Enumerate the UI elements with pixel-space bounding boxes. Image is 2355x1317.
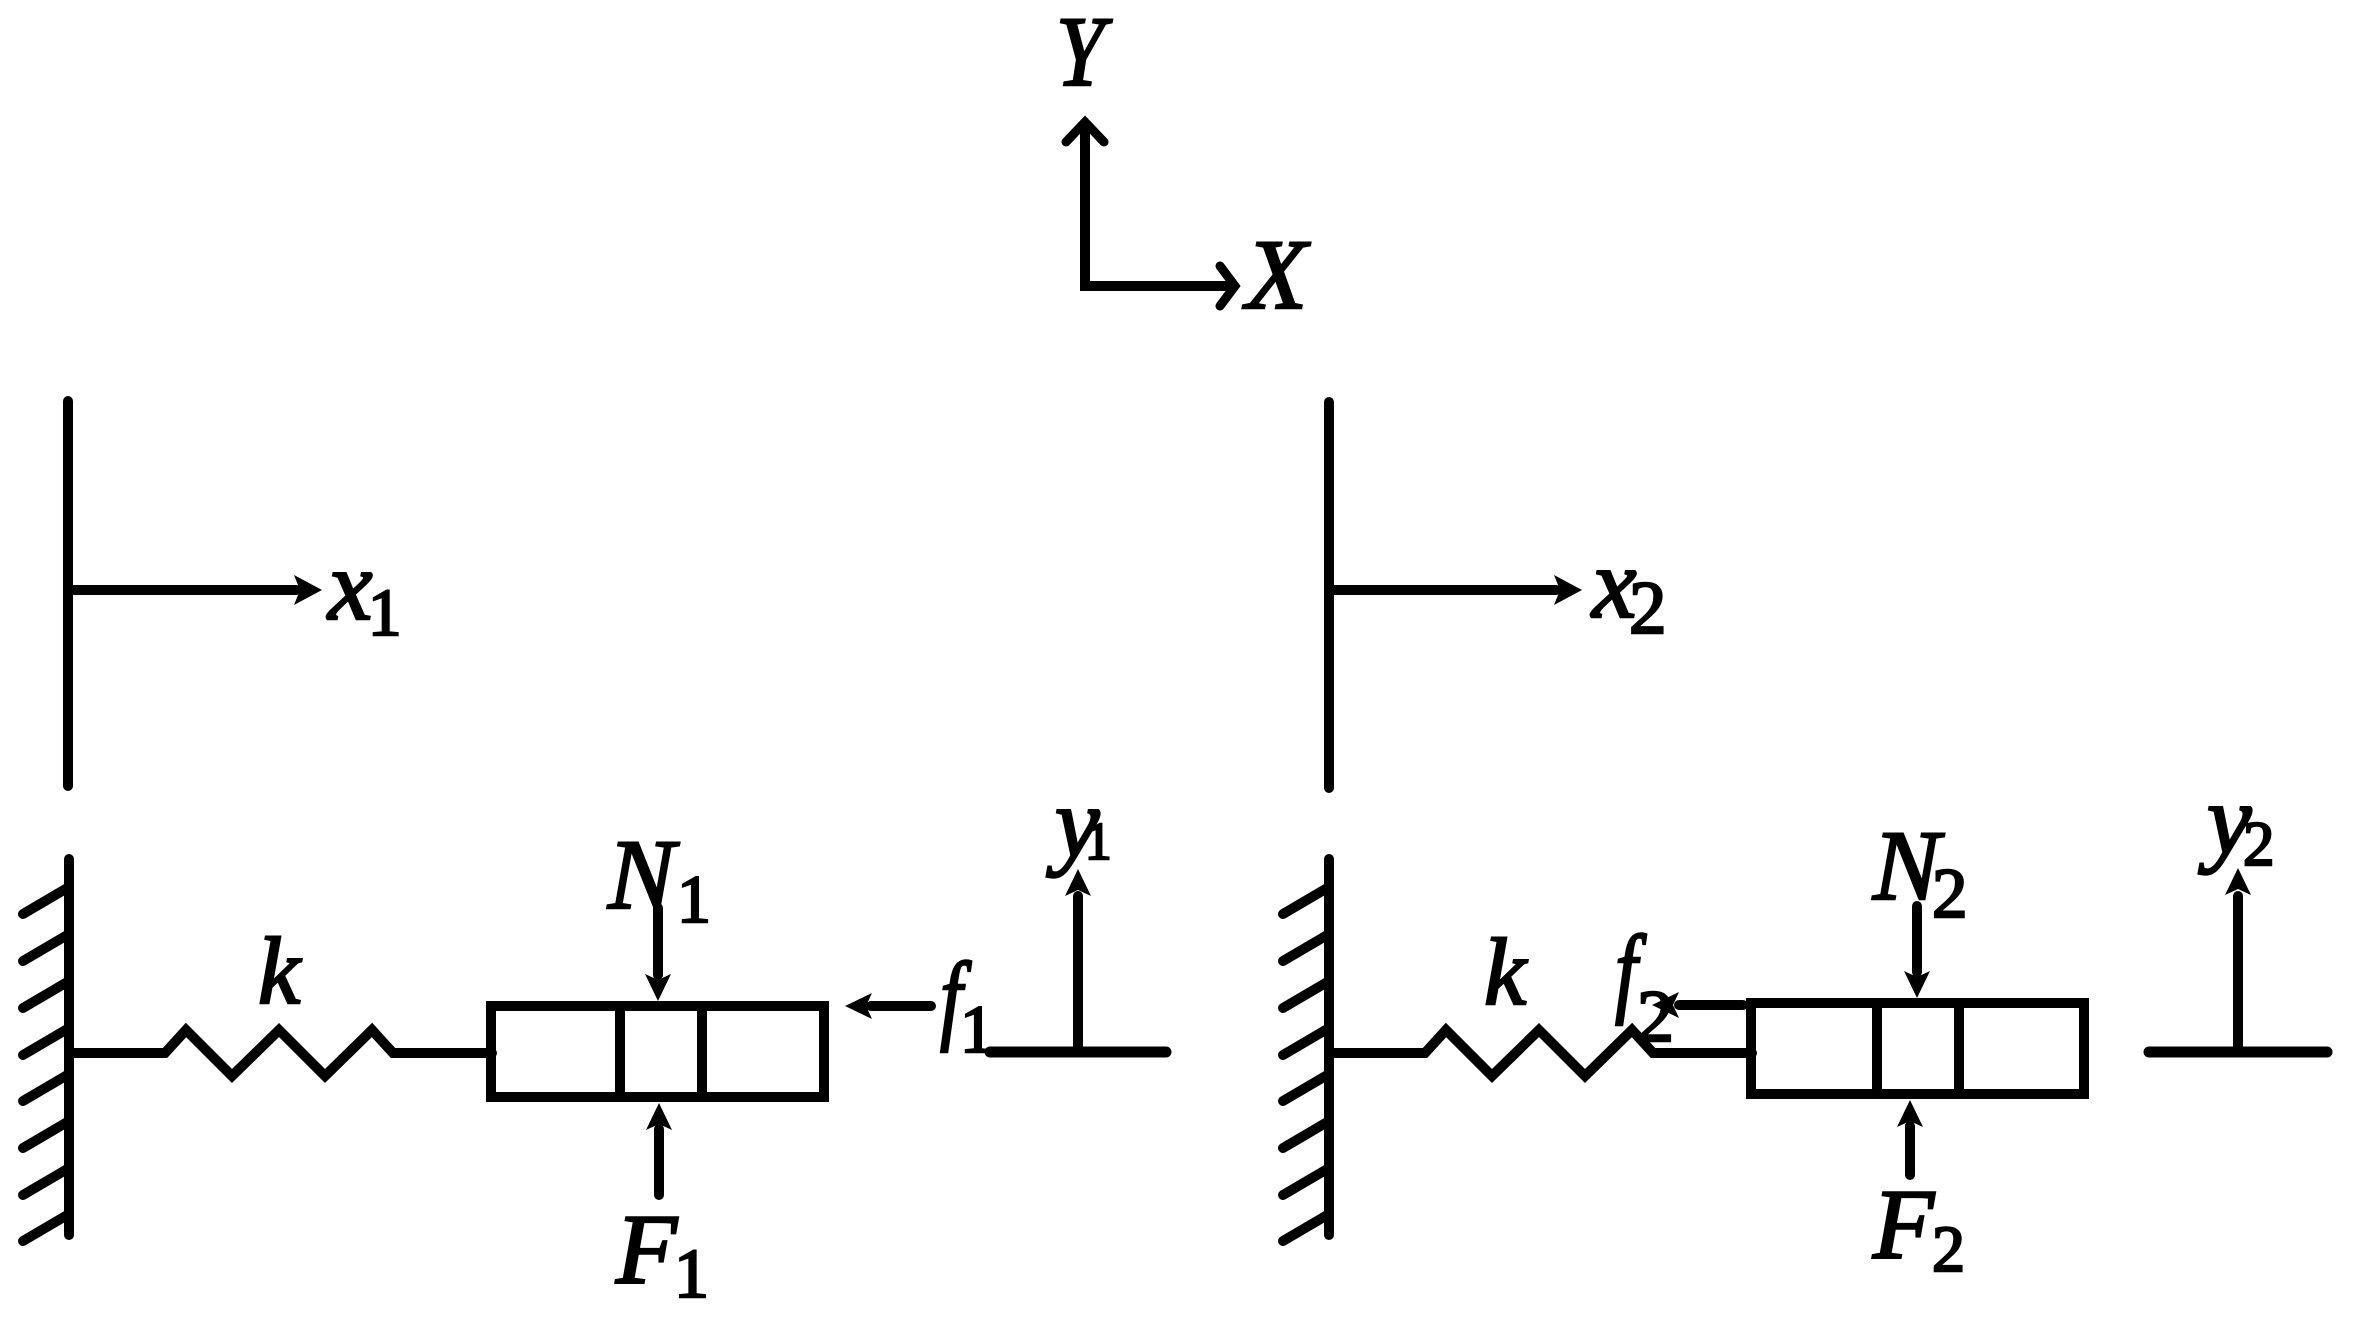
reference datum line right bbox=[1324, 402, 1334, 788]
svg-text:1: 1 bbox=[677, 861, 711, 937]
fixed wall right with hatching bbox=[1283, 859, 1329, 1241]
friction force f1 arrow bbox=[871, 1001, 931, 1011]
svg-text:1: 1 bbox=[368, 576, 402, 650]
x2 arrowhead bbox=[1554, 575, 1582, 605]
svg-text:2: 2 bbox=[2243, 809, 2275, 879]
mass m1 internal dividers bbox=[620, 1006, 702, 1097]
svg-text:X: X bbox=[1242, 219, 1311, 330]
y2 axis base line bbox=[2149, 1047, 2327, 1058]
svg-text:1: 1 bbox=[674, 1236, 709, 1313]
svg-text:x: x bbox=[326, 530, 372, 641]
mass block m2 bbox=[1751, 1003, 2084, 1094]
x1 arrowhead bbox=[294, 575, 322, 605]
spring k right bbox=[1329, 1030, 1752, 1076]
y2 axis arrow bbox=[2233, 896, 2243, 1047]
svg-text:Y: Y bbox=[1056, 0, 1113, 107]
mass m2 internal dividers bbox=[1877, 1003, 1959, 1094]
reference datum line left bbox=[63, 401, 73, 786]
normal force N2 arrow bbox=[1912, 906, 1922, 972]
coordinate axes X-Y origin lines bbox=[1085, 123, 1234, 286]
spring k left bbox=[69, 1030, 492, 1076]
svg-text:2: 2 bbox=[1629, 567, 1667, 650]
svg-text:k: k bbox=[1484, 919, 1528, 1025]
x1 displacement arrow shaft bbox=[68, 585, 296, 595]
svg-text:k: k bbox=[258, 918, 302, 1024]
svg-text:F: F bbox=[615, 1194, 678, 1305]
svg-text:F: F bbox=[1872, 1169, 1935, 1280]
friction force f2 arrow bbox=[1679, 1000, 1743, 1010]
svg-text:2: 2 bbox=[1932, 1213, 1965, 1286]
applied force F2 arrow bbox=[1905, 1126, 1915, 1175]
svg-text:N: N bbox=[607, 819, 680, 930]
Y-axis arrowhead bbox=[1066, 122, 1104, 142]
mass block m1 bbox=[491, 1006, 824, 1097]
fixed wall left with hatching bbox=[23, 859, 69, 1241]
normal force N1 arrow bbox=[653, 908, 663, 975]
svg-text:1: 1 bbox=[1085, 813, 1112, 871]
y1 axis arrow bbox=[1073, 896, 1083, 1047]
X-axis arrowhead bbox=[1220, 266, 1235, 306]
svg-text:2: 2 bbox=[1932, 855, 1968, 933]
y1 axis base line bbox=[990, 1047, 1166, 1058]
applied force F1 arrow bbox=[654, 1129, 664, 1195]
svg-text:2: 2 bbox=[1637, 976, 1674, 1058]
x2 displacement arrow shaft bbox=[1329, 585, 1556, 595]
